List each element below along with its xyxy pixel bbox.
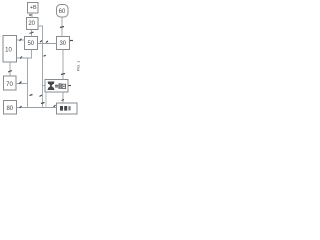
svg-text:70: 70 (6, 82, 13, 88)
wire W2 long vertical (42, 44, 44, 108)
label lead 81 tick (20, 106, 22, 108)
block 50 (25, 37, 38, 50)
wire W1 long vertical (27, 58, 29, 108)
block 80 (4, 101, 17, 115)
label lead 31 tick right of block30 (70, 40, 73, 42)
relay contact dashes (55, 85, 58, 86)
wire block20-block50 vertical (31, 30, 33, 37)
wire W3 bottom horizontal (17, 107, 57, 109)
svg-text:FIG. 1: FIG. 1 (76, 61, 80, 71)
label lead 31a tick (46, 41, 48, 43)
wire block50-block30 horizontal (38, 43, 57, 45)
wire block30 bottom to relay box (62, 50, 64, 80)
wire W2 to relay box left (43, 85, 46, 87)
relay terminal bars (59, 83, 60, 89)
wire A-B vertical (31, 13, 33, 18)
wire block10-block50 horizontal (17, 39, 25, 41)
label lead 41 tick (29, 14, 32, 16)
label lead above relay box (61, 74, 65, 75)
label lead right of W2 jog (44, 54, 46, 57)
label lead left of block90 (54, 105, 56, 107)
svg-text:10: 10 (5, 47, 12, 53)
wire relay box bottom to block90 (62, 92, 64, 103)
label lead 61 tick (60, 27, 64, 28)
wire block60-block30 vertical (61, 17, 63, 37)
block 90 (57, 103, 78, 114)
svg-text:+B: +B (30, 5, 37, 11)
label lead 13 tick (8, 71, 12, 73)
label lead 12 tick (20, 57, 22, 59)
wire block70 right (16, 83, 28, 85)
wire block10 bottom to block70 (9, 62, 11, 76)
label lead right of relay box (69, 85, 72, 87)
label lead on W1 tick (30, 95, 33, 96)
label lead above block90 (62, 100, 65, 101)
wire hook from block 20 right to node W2 (38, 26, 43, 44)
svg-text:60: 60 (59, 9, 66, 15)
svg-text:50: 50 (27, 41, 34, 47)
label lead 71 tick (19, 82, 22, 84)
svg-text:80: 80 (6, 106, 13, 112)
svg-text:30: 30 (59, 41, 66, 47)
block 40 (+B power supply box) (28, 3, 39, 14)
block H (relay/motor box) (45, 80, 68, 93)
block 70 (4, 76, 17, 90)
block 30 (57, 37, 70, 50)
label lead 21 tick (30, 32, 34, 34)
label lead on W2 tick (40, 95, 43, 97)
wire block10 lower to block50 bottom (17, 50, 32, 59)
label lead 11 tick (20, 39, 22, 41)
block 60 (rounded) (57, 5, 69, 18)
relay small square with dot (62, 84, 65, 88)
relay coil glyph left (hourglass) (48, 82, 54, 90)
label lead 51 tick (40, 41, 42, 43)
block 20 (27, 18, 39, 30)
label lead W2 bottom tick (41, 103, 45, 104)
block 10 (tall left box) (3, 36, 17, 63)
wire relay box lower-left drop (45, 92, 47, 108)
block90 icon marks (60, 106, 63, 111)
svg-text:20: 20 (28, 21, 35, 27)
